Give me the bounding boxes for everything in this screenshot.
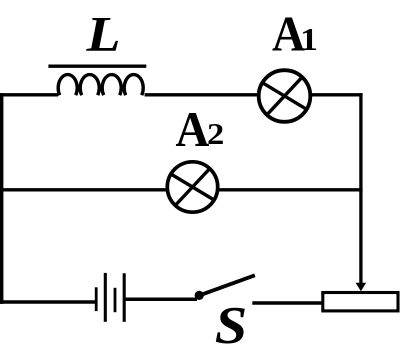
wire: top horizontal, inductor to lamp A1: [145, 93, 259, 96]
wire: bottom horizontal, left to battery: [0, 300, 95, 304]
label A1: [272, 6, 318, 62]
switch S lever: [200, 275, 255, 295]
wire: right vertical with arrow into rheostat: [356, 93, 367, 291]
wire: bottom horizontal, battery to switch: [126, 298, 198, 302]
wire: bottom horizontal, switch to rheostat: [252, 301, 322, 305]
svg-text:2: 2: [207, 117, 224, 151]
svg-text:S: S: [215, 297, 248, 355]
svg-text:A: A: [176, 101, 210, 157]
svg-text:1: 1: [300, 21, 318, 57]
lamp A1: [259, 70, 311, 122]
lamp A2: [167, 162, 217, 212]
wire: middle horizontal, left to lamp A2: [0, 188, 167, 191]
svg-text:L: L: [85, 6, 120, 62]
wire: left vertical: [0, 93, 3, 304]
battery: [96, 273, 124, 322]
switch junction dot: [195, 291, 204, 300]
rheostat R: [323, 293, 398, 311]
wire: top horizontal, lamp A1 to right vertical: [310, 93, 363, 96]
inductor L: [48, 66, 146, 95]
wire: top horizontal, left lead to inductor: [0, 93, 58, 96]
wire: middle horizontal, lamp A2 to right vertical: [218, 188, 363, 191]
label A2: [176, 101, 225, 157]
